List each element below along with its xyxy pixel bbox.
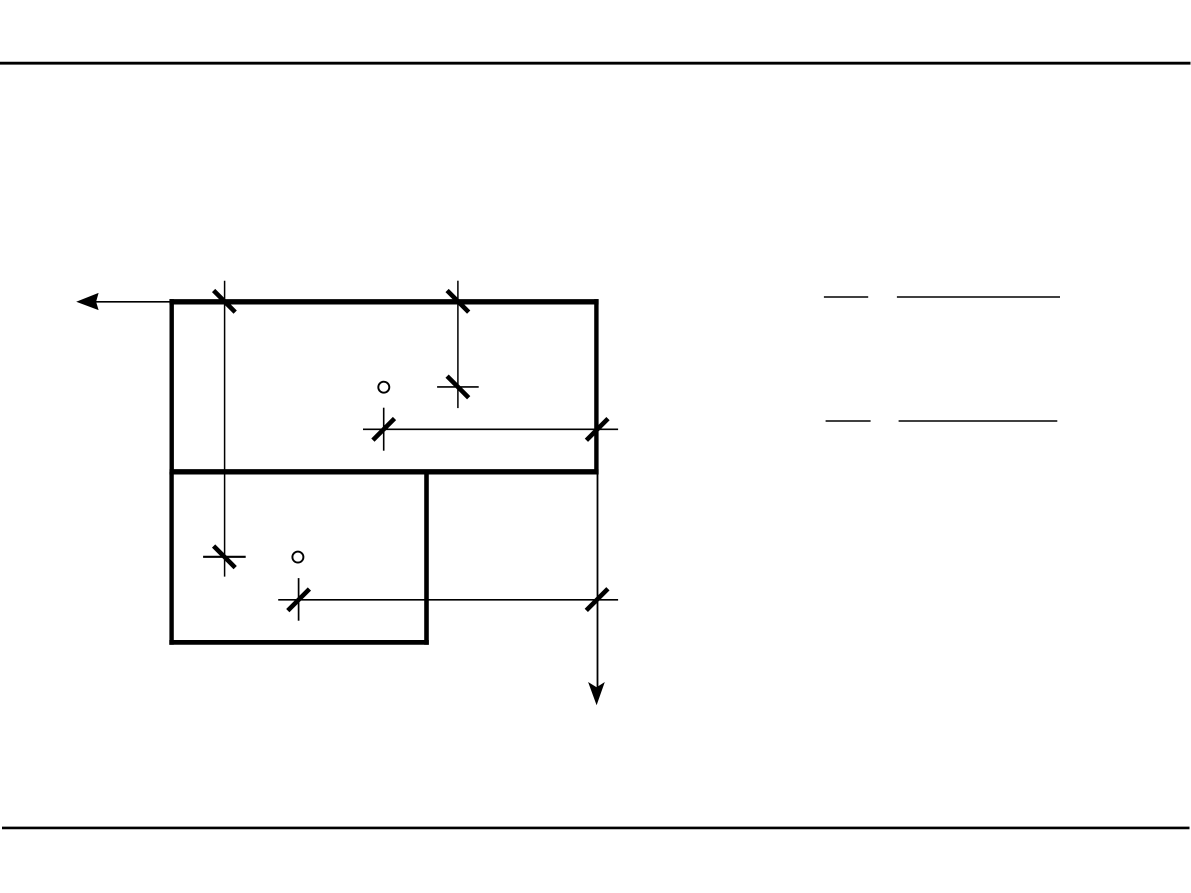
rectangle B bottom edge <box>169 640 429 645</box>
crossbar at dim2 left <box>298 578 300 621</box>
rectangle B right edge <box>424 472 429 645</box>
left arrowhead <box>76 293 98 310</box>
vertical guide line B <box>457 281 459 408</box>
tick slash d <box>214 546 236 568</box>
tick slash e <box>373 419 395 441</box>
left arrow shaft <box>95 301 172 303</box>
tick slash a <box>214 291 236 313</box>
tick slash f <box>586 419 608 441</box>
rectangle A left edge <box>169 299 173 474</box>
answer blank 2b <box>899 420 1058 422</box>
answer blank 2a <box>826 420 871 422</box>
top rule <box>0 62 1191 65</box>
crossbar at B mid <box>437 386 479 388</box>
dimension line 2 <box>278 599 618 601</box>
tick slash g <box>288 589 310 611</box>
down arrowhead <box>588 682 605 705</box>
tick slash c <box>447 376 469 398</box>
rectangle B left edge <box>169 472 173 645</box>
tick slash h <box>586 589 608 611</box>
tick slash b <box>447 291 469 313</box>
crossbar at A bottom <box>203 556 246 558</box>
bottom rule <box>2 827 1190 830</box>
vertical guide line A <box>224 281 226 577</box>
rectangle A top edge <box>169 299 598 304</box>
answer blank 1b <box>897 296 1060 298</box>
answer blank 1a <box>824 296 868 298</box>
crossbar at dim1 left <box>383 408 385 451</box>
down arrow shaft <box>597 474 599 688</box>
rectangle A bottom shared edge <box>169 469 598 474</box>
dimension line 1 <box>363 428 618 430</box>
circle marker 2 <box>292 552 303 563</box>
circle marker 1 <box>378 382 389 393</box>
rectangle A right edge <box>594 299 598 474</box>
